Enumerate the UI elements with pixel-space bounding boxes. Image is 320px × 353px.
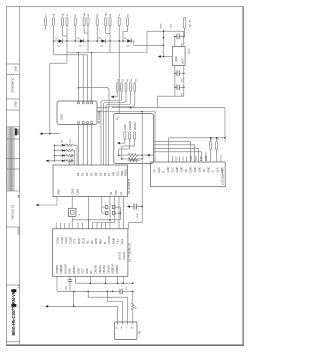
svg-text:D3: D3 (90, 172, 94, 176)
svg-text:RX1: RX1 (120, 238, 124, 244)
svg-text:GXCO: GXCO (118, 252, 122, 260)
svg-text:Y10: Y10 (114, 190, 118, 195)
svg-text:HOLK: HOLK (124, 169, 128, 176)
title block cell texts (11, 66, 21, 288)
title block revision table (7, 127, 20, 191)
svg-text:COCO: COCO (122, 252, 126, 260)
svg-text:GND: GND (198, 167, 202, 173)
svg-text:NC: NC (89, 270, 93, 274)
net flag arrow left (40, 132, 61, 135)
wire U1 to U2 verticals (88, 197, 123, 229)
svg-text:SNB3W: SNB3W (59, 264, 63, 274)
wire JP1 curls (101, 92, 135, 166)
capacitor C5 (174, 34, 184, 47)
module J3 LCD12864 (150, 162, 225, 187)
wire loop feed (78, 88, 109, 108)
svg-text:OUT: OUT (180, 58, 184, 64)
svg-text:U4 DS1302: U4 DS1302 (97, 110, 101, 124)
svg-text:SCL: SCL (194, 155, 198, 161)
diode row 3 (54, 154, 74, 165)
wire top feed (147, 30, 184, 56)
svg-text:B: B (103, 242, 107, 244)
svg-text:GND: GND (60, 114, 64, 120)
wire C4 down to U2 (129, 206, 143, 229)
wire horizontal bus (97, 107, 225, 162)
svg-text:RXD: RXD (204, 155, 208, 161)
svg-text:S: S (211, 171, 215, 173)
svg-text:GND: GND (175, 167, 179, 173)
svg-text:OCO: OCO (81, 238, 85, 244)
node junction dots on diode row (53, 40, 124, 42)
wire labels (189, 155, 208, 161)
wire U4 bottom to U1 (78, 124, 91, 165)
svg-text:MSUN: MSUN (133, 122, 137, 130)
module U5 (114, 114, 154, 164)
svg-text:VCC: VCC (171, 167, 175, 173)
svg-text:GND: GND (160, 23, 162, 28)
capacitor C4 with gnd flag (127, 204, 142, 218)
ground flag arrow (158, 55, 173, 58)
svg-text:GND: GND (76, 268, 80, 274)
sheet border outer frame (6, 7, 244, 346)
connector JP1 5-pin (116, 78, 137, 91)
svg-text:US3BP: US3BP (55, 265, 59, 274)
wire connector feed 2 (107, 291, 122, 322)
capacitor C9 (120, 286, 128, 295)
wire stubs below pins (46, 26, 128, 115)
svg-text:LCD12864-07: LCD12864-07 (221, 168, 225, 185)
svg-text:1.0: 1.0 (17, 284, 21, 288)
diode D3 (98, 38, 105, 48)
svg-text:NC: NC (184, 169, 188, 173)
diode row 4 (46, 145, 75, 165)
capacitor C1 C2 pair (102, 197, 121, 220)
connector pin J1 (45, 18, 129, 26)
IC U4 DS1302 (57, 101, 101, 125)
wire bundle to U4 (50, 26, 92, 134)
net flag arrow JP1 (111, 92, 117, 99)
svg-text:P60: P60 (99, 239, 103, 244)
svg-text:GND: GND (189, 167, 193, 173)
svg-text:3V3OUT: 3V3OUT (63, 263, 67, 274)
svg-text:GND: GND (68, 268, 72, 274)
svg-text:NC: NC (202, 169, 206, 173)
net flag arrow in U5 (117, 139, 135, 159)
wire lower rail (57, 291, 134, 293)
svg-text:SCHEMATIC: SCHEMATIC (11, 78, 15, 93)
MCU U1 (53, 165, 131, 197)
svg-text:CS1U: CS1U (56, 237, 60, 244)
svg-text:D4: D4 (94, 172, 98, 176)
svg-text:CS1B: CS1B (60, 237, 64, 244)
svg-text:D0: D0 (76, 172, 80, 176)
svg-text:NC: NC (90, 240, 94, 244)
resistor R8 pullup (210, 136, 214, 149)
diode D2 (77, 38, 84, 48)
diode D4 (124, 38, 131, 48)
svg-text:C301: C301 (76, 188, 80, 195)
svg-text:D1: D1 (81, 172, 85, 176)
svg-text:CBUS0: CBUS0 (94, 265, 98, 274)
svg-text:D6: D6 (103, 172, 107, 176)
svg-text:INT: INT (111, 171, 115, 176)
title block strip (7, 7, 20, 346)
svg-text:B: B (162, 171, 166, 173)
svg-text:GND: GND (85, 268, 89, 274)
svg-text:V1A: V1A (216, 167, 220, 172)
crystal Y1 (36, 197, 81, 220)
svg-text:RESET: RESET (72, 265, 76, 274)
svg-text:78L05: 78L05 (188, 48, 190, 55)
wire U2 top pin stubs (56, 220, 110, 229)
net label GND (160, 23, 172, 28)
svg-text:VCC: VCC (171, 24, 173, 29)
wire U2 bottom stubs (57, 276, 123, 291)
svg-text:CBUS2: CBUS2 (102, 265, 106, 274)
svg-text:A1: A1 (119, 191, 123, 195)
MCU U2 AT89S52 (53, 229, 132, 276)
pin labels (46, 12, 130, 17)
svg-text:SDA: SDA (120, 170, 124, 176)
svg-text:w: w (131, 327, 133, 330)
voltage regulator U3 78L05 (172, 46, 190, 65)
capacitor C6 (174, 70, 184, 82)
wire routing to module J3 (154, 141, 222, 162)
svg-text:TX1: TX1 (116, 239, 120, 244)
svg-text:CBUS1: CBUS1 (98, 265, 102, 274)
svg-text:CBUS3: CBUS3 (106, 265, 110, 274)
svg-text:P1: P1 (116, 116, 120, 120)
svg-text:HSCALE 1:1: HSCALE 1:1 (11, 204, 15, 220)
wire bus drop (141, 112, 143, 207)
diode D1 (56, 38, 63, 48)
svg-text:OSD: OSD (77, 238, 81, 244)
wire lower bus (67, 41, 164, 53)
svg-text:P2: P2 (137, 330, 141, 334)
svg-text:U1 PCF8574: U1 PCF8574 (127, 178, 131, 194)
diode row 1 (54, 144, 77, 165)
capacitor C7 (174, 85, 184, 97)
net flag arrow right (147, 154, 150, 157)
svg-text:USBDM: USBDM (111, 264, 115, 274)
svg-text:GND: GND (123, 124, 127, 130)
wire gnd feed with arrow (45, 291, 118, 322)
svg-text:GND: GND (174, 56, 178, 62)
resistor R7 (131, 291, 137, 322)
connector P2 (115, 322, 142, 340)
svg-text:GND3: GND3 (16, 227, 20, 235)
wire upper rail (76, 282, 134, 284)
diode row 2 (54, 149, 75, 165)
capacitor C8 (66, 276, 72, 291)
svg-text:SB+ 3B: SB+ 3B (190, 20, 192, 28)
svg-text:GND: GND (57, 189, 61, 195)
diode-resistor array rows D5-D8 (61, 138, 72, 143)
wire crystal rail (72, 219, 120, 221)
svg-text:S1: S1 (109, 191, 113, 195)
svg-text:RHO: RHO (94, 238, 98, 244)
wire diode row (54, 40, 134, 42)
svg-text:A4: A4 (16, 194, 20, 198)
svg-text:WNB: WNB (111, 238, 115, 244)
svg-text:C104: C104 (66, 285, 68, 291)
wire pullup rail (169, 137, 226, 162)
title block drawing number (bold) (11, 289, 17, 335)
svg-text:C300: C300 (71, 188, 75, 195)
svg-text:NC: NC (86, 240, 90, 244)
svg-text:TXD: TXD (199, 156, 203, 161)
resistor R6 (121, 157, 143, 160)
svg-text:TX: TX (153, 169, 157, 173)
svg-text:CS2U: CS2U (64, 237, 68, 244)
wire connector feed 1 (88, 291, 127, 322)
svg-text:100: 100 (14, 66, 18, 71)
svg-text:D7: D7 (107, 172, 111, 176)
resistor R9 pullup (216, 136, 220, 149)
svg-text:RX5: RX5 (157, 167, 161, 173)
svg-text:GND: GND (180, 167, 184, 173)
svg-text:D5: D5 (99, 172, 103, 176)
svg-text:GND: GND (14, 101, 18, 107)
svg-text:USBDP: USBDP (115, 265, 119, 274)
svg-text:LNMOS: LNMOS (128, 121, 132, 131)
svg-text:VCOO: VCOO (107, 236, 111, 244)
svg-text:SCL: SCL (116, 170, 120, 176)
resistor R3 right of U1 (128, 159, 140, 162)
resistor R5 (118, 154, 154, 157)
svg-text:CS2B: CS2B (68, 237, 72, 244)
power input pin SB+ (184, 17, 192, 36)
svg-text:GND: GND (193, 167, 197, 173)
wire power rails (158, 31, 184, 107)
svg-text:VCC: VCC (81, 268, 85, 274)
svg-text:GND: GND (166, 167, 170, 173)
svg-text:CTS: CTS (73, 238, 77, 244)
svg-text:GND: GND (207, 167, 211, 173)
svg-text:U2 FT232RL-07: U2 FT232RL-07 (128, 243, 132, 262)
svg-text:SDA: SDA (189, 155, 193, 161)
svg-text:D2: D2 (85, 172, 89, 176)
